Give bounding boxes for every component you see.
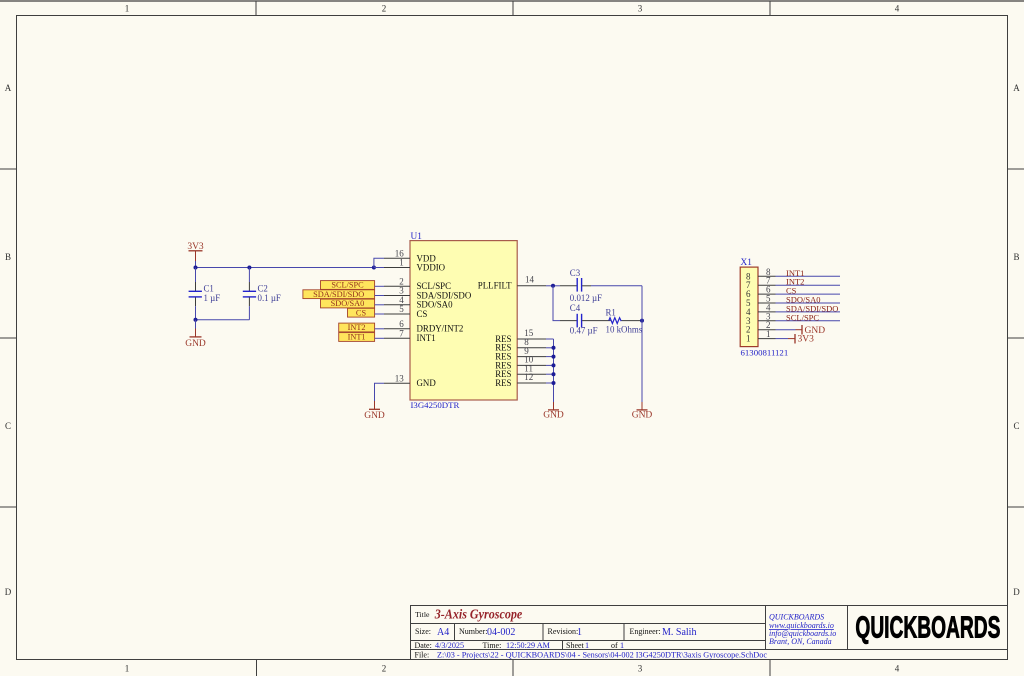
svg-text:1: 1 [585, 641, 589, 650]
pin 16 VDD [384, 249, 436, 264]
svg-text:GND: GND [364, 411, 385, 421]
svg-text:13: 13 [395, 373, 405, 383]
pin 9 RES [495, 346, 546, 362]
resistor R1 [606, 307, 643, 334]
svg-text:RES: RES [495, 378, 511, 388]
svg-text:CS: CS [356, 308, 367, 317]
svg-text:2: 2 [382, 664, 387, 674]
power port 3V3 (X1 pin 1) [788, 334, 814, 345]
svg-text:Z:\03 - Projects\22 - QUICKBOA: Z:\03 - Projects\22 - QUICKBOARDS\04 - S… [437, 651, 767, 660]
svg-text:C: C [5, 421, 11, 431]
svg-text:Time:: Time: [483, 641, 502, 650]
pin 11 RES [495, 363, 546, 379]
svg-text:Sheet: Sheet [566, 641, 585, 650]
sheet outer top line [0, 0, 1024, 2]
svg-text:INT1: INT1 [348, 333, 366, 342]
svg-text:3-Axis Gyroscope: 3-Axis Gyroscope [434, 607, 522, 622]
svg-text:Number:: Number: [459, 627, 487, 636]
svg-text:7: 7 [399, 329, 404, 339]
pin 4 X1 [746, 302, 776, 317]
svg-text:Date:: Date: [415, 641, 432, 650]
pin 5 X1 [746, 294, 776, 309]
node VDD branch [372, 266, 376, 270]
node RES 12 [552, 381, 556, 385]
pin 8 X1 [746, 267, 776, 282]
svg-text:0.012 µF: 0.012 µF [570, 293, 602, 303]
svg-text:14: 14 [525, 275, 535, 285]
svg-text:12:50:29 AM: 12:50:29 AM [506, 641, 551, 650]
svg-text:D: D [1013, 587, 1020, 597]
pin 3 SDA/SDI/SDO [384, 286, 472, 301]
svg-text:1: 1 [766, 329, 771, 339]
capacitor C2 [243, 268, 281, 320]
wire SDA/SDI/SDO [375, 295, 384, 297]
pin 7 INT1 [384, 329, 436, 344]
node RES 11 [552, 372, 556, 376]
svg-text:12: 12 [524, 372, 533, 382]
wire SDA/SDI/SDO (X1) [776, 311, 841, 313]
net label CS [348, 308, 375, 317]
pin 1 VDDIO [384, 258, 446, 273]
svg-text:1: 1 [746, 334, 751, 344]
svg-text:10 kOhms: 10 kOhms [606, 325, 643, 335]
svg-text:File:: File: [415, 651, 430, 660]
node C1 top [194, 266, 198, 270]
svg-text:3V3: 3V3 [798, 335, 815, 345]
power port 3V3 (left) [187, 242, 204, 261]
svg-text:A4: A4 [437, 627, 449, 638]
svg-text:4: 4 [895, 4, 900, 14]
wire right vertical [641, 286, 643, 402]
net label INT1 [339, 333, 375, 342]
pin 13 GND [384, 373, 436, 388]
pin 1 X1 [746, 329, 776, 344]
title block frame [411, 606, 1008, 660]
svg-text:0.47 µF: 0.47 µF [570, 325, 598, 335]
svg-text:GND: GND [185, 339, 206, 349]
wire pin1 to 3V3 [776, 338, 789, 340]
pin 3 X1 [746, 311, 776, 326]
svg-text:R1: R1 [606, 307, 616, 317]
capacitor C4 [560, 303, 611, 336]
svg-text:C3: C3 [570, 268, 581, 278]
svg-text:Brant, ON, Canada: Brant, ON, Canada [769, 637, 832, 646]
svg-text:of: of [611, 641, 618, 650]
wire CS [375, 313, 384, 315]
wire SDO/SA0 (X1) [776, 302, 841, 304]
svg-text:1: 1 [125, 664, 130, 674]
net label SCL/SPC [321, 281, 375, 290]
svg-text:C4: C4 [570, 303, 581, 313]
wire C4 branch down [553, 286, 560, 321]
svg-text:GND: GND [632, 411, 653, 421]
svg-text:DRDY/INT2: DRDY/INT2 [417, 324, 464, 334]
wire C3 to corner [591, 285, 642, 287]
svg-text:3: 3 [638, 4, 643, 14]
company info block [769, 613, 836, 647]
svg-text:GND: GND [543, 411, 564, 421]
pin 10 RES [495, 355, 546, 371]
node RES 8 [552, 346, 556, 350]
op-amp U1 body [410, 241, 517, 400]
svg-text:1: 1 [577, 627, 582, 638]
pin 12 RES [495, 372, 546, 388]
node C2 top [247, 266, 251, 270]
pin 4 SDO/SA0 [384, 295, 453, 310]
svg-text:CS: CS [417, 309, 428, 319]
ground GND (X1 pin 2) [796, 325, 826, 336]
node pin14 junction [551, 284, 555, 288]
pin 6 DRDY/INT2 [384, 319, 463, 334]
connector X1 body [740, 267, 758, 347]
pin 2 SCL/SPC [384, 277, 451, 292]
wire SCL/SPC (X1) [776, 320, 841, 322]
svg-text:U1: U1 [411, 232, 423, 242]
wire top rail [196, 267, 374, 269]
svg-text:5: 5 [399, 304, 404, 314]
wire pin14 [546, 285, 560, 287]
wire VDDIO [374, 267, 384, 269]
wire R1 to node [622, 320, 641, 322]
wire 3V3 to top rail [195, 261, 197, 268]
svg-text:Title: Title [415, 610, 430, 619]
svg-text:A: A [5, 83, 12, 93]
svg-text:1 µF: 1 µF [204, 293, 221, 303]
wire RES bus [546, 339, 554, 402]
node RES 10 [552, 363, 556, 367]
svg-text:INT1: INT1 [417, 333, 436, 343]
svg-text:4: 4 [895, 664, 900, 674]
pin 7 X1 [746, 276, 776, 291]
svg-text:04-002: 04-002 [487, 627, 515, 638]
wire pin13 to GND [375, 383, 385, 401]
svg-text:B: B [1013, 252, 1019, 262]
svg-text:2: 2 [382, 4, 387, 14]
capacitor C1 [189, 268, 221, 320]
ground GND (right) [632, 402, 653, 421]
svg-text:B: B [5, 252, 11, 262]
file row [415, 651, 768, 660]
wire INT1 (X1) [776, 275, 841, 277]
capacitor C3 [560, 268, 602, 303]
svg-text:1: 1 [399, 258, 404, 268]
pin 2 X1 [746, 320, 776, 335]
size row [415, 627, 696, 638]
ground GND (below pin 13) [364, 401, 385, 421]
wire pin2 to GND [776, 329, 796, 331]
wire VDD branch up [374, 258, 384, 267]
svg-text:6: 6 [399, 319, 404, 329]
svg-text:I3G4250DTR: I3G4250DTR [411, 400, 460, 410]
svg-text:Size:: Size: [415, 627, 431, 636]
net label SDO/SA0 [321, 299, 375, 308]
pin 15 RES [495, 328, 546, 344]
ground GND (RES bus) [543, 402, 564, 421]
svg-text:0.1 µF: 0.1 µF [258, 293, 281, 303]
svg-text:A: A [1013, 83, 1020, 93]
wire bottom rail [196, 319, 250, 321]
wire INT2 (X1) [776, 284, 841, 286]
pin 8 RES [495, 337, 546, 353]
svg-text:1: 1 [620, 641, 624, 650]
pin 5 CS [384, 304, 427, 319]
title row [415, 607, 522, 622]
svg-text:Revision:: Revision: [548, 627, 579, 636]
svg-text:Engineer:: Engineer: [630, 627, 661, 636]
svg-text:M. Salih: M. Salih [662, 627, 696, 638]
svg-text:C: C [1013, 421, 1019, 431]
net label INT2 [339, 323, 375, 332]
svg-text:SDO/SA0: SDO/SA0 [331, 299, 365, 308]
svg-text:VDDIO: VDDIO [417, 263, 446, 273]
wire to GND left [195, 320, 197, 329]
svg-text:4/3/2025: 4/3/2025 [435, 641, 464, 650]
wire INT1 [375, 337, 384, 339]
net label SDA/SDI/SDO [303, 290, 375, 299]
wire SDO/SA0 [375, 304, 384, 306]
svg-text:SCL/SPC: SCL/SPC [786, 312, 819, 322]
wire SCL/SPC [375, 285, 384, 287]
svg-text:3: 3 [638, 664, 643, 674]
svg-text:QUICKBOARDS: QUICKBOARDS [855, 610, 1000, 644]
wire INT2 [375, 328, 384, 330]
svg-text:PLLFILT: PLLFILT [478, 281, 512, 291]
node C1 bottom [194, 318, 198, 322]
svg-text:GND: GND [417, 378, 437, 388]
node R1 output [640, 319, 644, 323]
wire CS (X1) [776, 293, 841, 295]
svg-text:D: D [5, 587, 12, 597]
svg-text:X1: X1 [741, 258, 753, 268]
date row [415, 641, 625, 650]
svg-text:61300811121: 61300811121 [741, 348, 789, 358]
pin 14 PLLFILT [478, 275, 546, 291]
svg-text:SDA/SDI/SDO: SDA/SDI/SDO [313, 290, 364, 299]
svg-text:INT2: INT2 [348, 323, 366, 332]
svg-text:SCL/SPC: SCL/SPC [331, 281, 364, 290]
node RES 9 [552, 355, 556, 359]
svg-text:1: 1 [125, 4, 130, 14]
ground GND (below C1) [185, 329, 206, 349]
pin 6 X1 [746, 285, 776, 300]
